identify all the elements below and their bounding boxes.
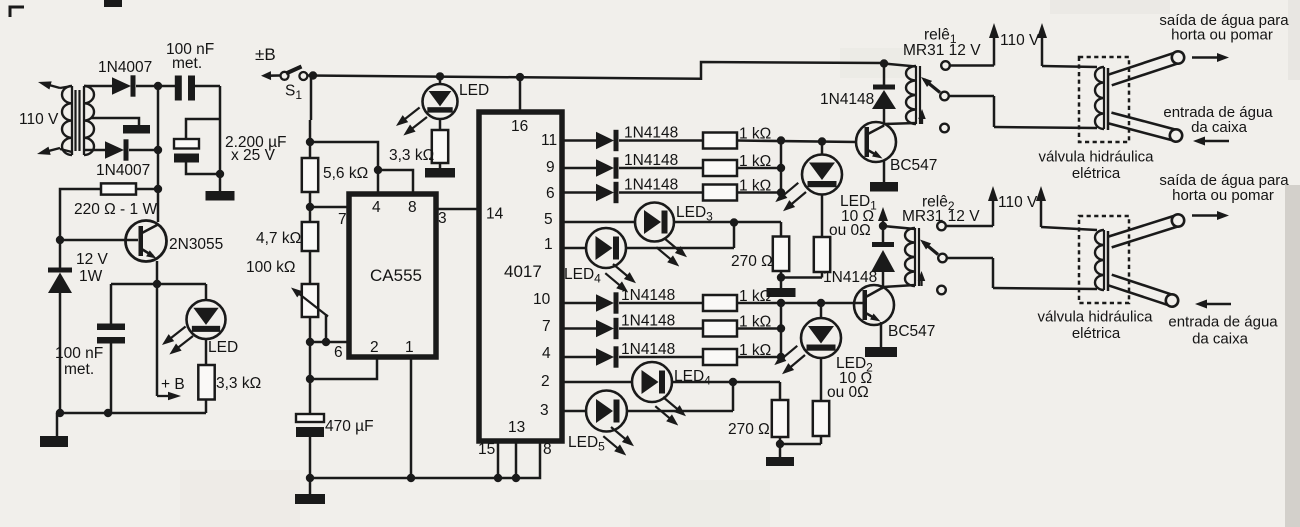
svg-text:MR31 12 V: MR31 12 V <box>903 42 981 59</box>
svg-text:4: 4 <box>372 199 381 216</box>
svg-text:2: 2 <box>370 339 379 356</box>
svg-text:4: 4 <box>542 345 551 362</box>
svg-text:5: 5 <box>544 211 553 228</box>
svg-text:1N4007: 1N4007 <box>96 162 150 179</box>
svg-text:7: 7 <box>542 318 551 335</box>
svg-text:100 kΩ: 100 kΩ <box>246 259 296 276</box>
svg-text:1: 1 <box>405 339 414 356</box>
svg-text:da caixa: da caixa <box>1192 331 1249 348</box>
svg-text:3: 3 <box>540 402 549 419</box>
svg-text:ou 0Ω: ou 0Ω <box>829 222 871 239</box>
svg-text:1N4148: 1N4148 <box>820 91 874 108</box>
svg-text:8: 8 <box>408 199 417 216</box>
svg-text:da caixa: da caixa <box>1191 119 1248 136</box>
svg-text:14: 14 <box>486 206 504 223</box>
svg-text:110 V: 110 V <box>998 194 1038 211</box>
svg-text:470 µF: 470 µF <box>325 418 374 435</box>
svg-text:4017: 4017 <box>504 262 542 281</box>
svg-text:+ B: + B <box>161 376 185 393</box>
svg-text:1N4148: 1N4148 <box>624 125 678 142</box>
svg-text:5,6 kΩ: 5,6 kΩ <box>323 165 368 182</box>
svg-text:met.: met. <box>64 361 94 378</box>
svg-text:110 V: 110 V <box>19 111 59 128</box>
svg-text:7: 7 <box>338 211 347 228</box>
svg-text:1N4148: 1N4148 <box>624 177 678 194</box>
svg-text:1N4148: 1N4148 <box>621 287 675 304</box>
svg-text:válvula hidráulica: válvula hidráulica <box>1038 149 1154 166</box>
svg-text:15: 15 <box>478 441 495 458</box>
svg-text:1: 1 <box>544 236 553 253</box>
svg-text:1N4148: 1N4148 <box>621 341 675 358</box>
svg-text:270 Ω: 270 Ω <box>731 253 773 270</box>
svg-text:elétrica: elétrica <box>1072 325 1121 342</box>
svg-text:12 V: 12 V <box>76 251 109 268</box>
svg-text:100 nF: 100 nF <box>55 345 103 362</box>
svg-text:±B: ±B <box>255 45 276 64</box>
svg-text:ou 0Ω: ou 0Ω <box>827 384 869 401</box>
svg-text:6: 6 <box>546 185 555 202</box>
svg-text:1N4007: 1N4007 <box>98 59 152 76</box>
svg-text:horta ou pomar: horta ou pomar <box>1171 27 1273 44</box>
svg-text:CA555: CA555 <box>370 266 422 285</box>
svg-text:2N3055: 2N3055 <box>169 236 223 253</box>
svg-text:13: 13 <box>508 419 525 436</box>
svg-text:3,3 kΩ: 3,3 kΩ <box>216 375 261 392</box>
svg-text:1N4148: 1N4148 <box>823 269 877 286</box>
svg-text:1N4148: 1N4148 <box>621 313 675 330</box>
svg-text:met.: met. <box>172 55 202 72</box>
svg-text:1N4148: 1N4148 <box>624 152 678 169</box>
svg-text:LED: LED <box>459 82 489 99</box>
svg-text:220 Ω - 1 W: 220 Ω - 1 W <box>74 201 157 218</box>
svg-text:x 25 V: x 25 V <box>231 147 276 164</box>
svg-text:3,3 kΩ: 3,3 kΩ <box>389 147 434 164</box>
svg-text:270 Ω: 270 Ω <box>728 421 770 438</box>
svg-text:horta ou pomar: horta ou pomar <box>1172 187 1274 204</box>
svg-text:9: 9 <box>546 159 555 176</box>
svg-text:110 V: 110 V <box>1000 32 1040 49</box>
svg-text:8: 8 <box>543 441 552 458</box>
svg-text:entrada de água: entrada de água <box>1168 314 1278 331</box>
svg-text:10: 10 <box>533 291 551 308</box>
svg-text:válvula hidráulica: válvula hidráulica <box>1037 309 1153 326</box>
svg-text:11: 11 <box>541 132 557 149</box>
svg-text:2: 2 <box>541 373 550 390</box>
svg-text:BC547: BC547 <box>888 323 935 340</box>
svg-text:BC547: BC547 <box>890 157 937 174</box>
svg-text:LED: LED <box>208 339 238 356</box>
svg-text:elétrica: elétrica <box>1072 165 1121 182</box>
svg-text:3: 3 <box>438 210 447 227</box>
svg-text:16: 16 <box>511 118 528 135</box>
svg-text:1W: 1W <box>79 268 103 285</box>
svg-text:6: 6 <box>334 344 343 361</box>
svg-text:4,7 kΩ: 4,7 kΩ <box>256 230 301 247</box>
